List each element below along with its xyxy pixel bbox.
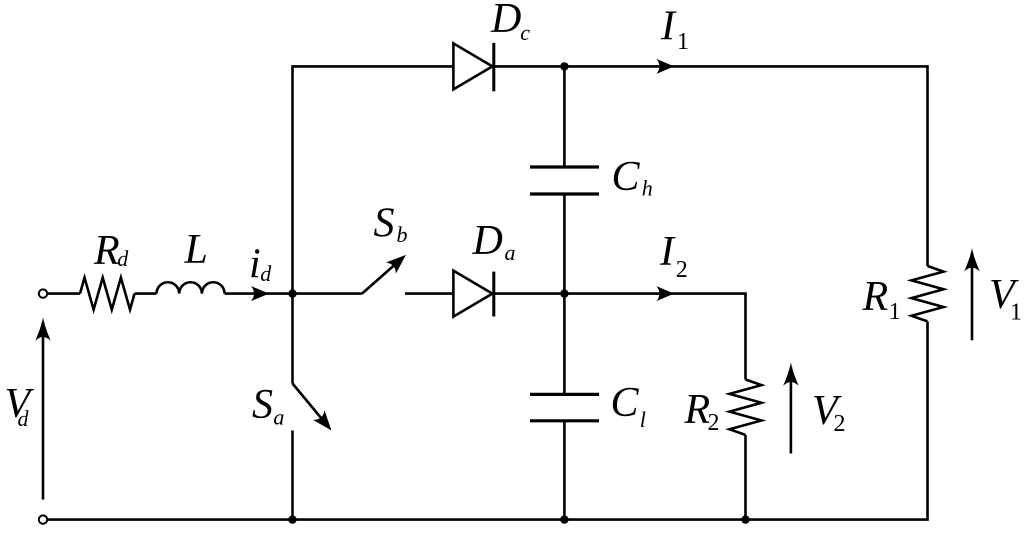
switch Sa: [293, 384, 338, 436]
voltage arrow Vd: [35, 317, 50, 499]
svg-text:d: d: [260, 261, 272, 286]
node middle capacitor junction: [560, 289, 568, 297]
wire capacitor branch top: [563, 66, 566, 167]
wire capacitor branch lower top: [563, 294, 566, 395]
wire input to Rd: [47, 292, 80, 295]
resistor R2: [730, 380, 762, 435]
resistor R1: [912, 266, 944, 321]
capacitor Cl: [530, 394, 599, 420]
svg-text:I: I: [659, 229, 676, 275]
wire middle rail right: [494, 294, 746, 380]
wire top rail left and left vertical riser: [293, 66, 454, 383]
wire Sa lower contact: [291, 431, 294, 520]
switch Sb: [362, 249, 411, 293]
terminal top-left input: [39, 289, 47, 297]
diode Dc: [453, 43, 493, 91]
wire Cl to bottom rail: [563, 421, 566, 520]
svg-text:1: 1: [889, 299, 901, 325]
resistor Rd: [80, 278, 135, 310]
svg-text:2: 2: [676, 257, 688, 283]
svg-text:I: I: [660, 3, 677, 49]
svg-text:c: c: [520, 20, 530, 45]
node input junction: [288, 289, 296, 297]
svg-text:S: S: [374, 201, 395, 247]
terminal bottom-left input: [39, 515, 47, 523]
svg-text:1: 1: [677, 29, 689, 55]
wire R2 to bottom rail: [744, 435, 747, 520]
svg-text:C: C: [611, 380, 640, 426]
node bottom Sa junction: [288, 515, 296, 523]
wire Rd to L: [135, 292, 157, 295]
node bottom R2 junction: [741, 515, 749, 523]
svg-text:D: D: [490, 0, 521, 42]
svg-text:R: R: [862, 274, 889, 320]
wire switch to Da: [405, 292, 453, 295]
svg-text:d: d: [117, 246, 129, 271]
svg-text:2: 2: [834, 411, 846, 437]
svg-text:S: S: [252, 382, 273, 428]
voltage arrow V2: [783, 362, 798, 453]
svg-text:D: D: [472, 218, 503, 264]
node top capacitor junction: [560, 62, 568, 70]
svg-text:a: a: [273, 405, 284, 430]
wire L to node: [225, 292, 293, 295]
svg-text:2: 2: [708, 410, 720, 436]
capacitor Ch: [530, 167, 599, 194]
svg-text:R: R: [93, 228, 120, 274]
current arrow id: [251, 286, 269, 301]
wire middle rail to switch: [293, 292, 363, 295]
svg-text:R: R: [684, 387, 711, 433]
svg-text:h: h: [642, 176, 653, 201]
inductor L: [157, 282, 225, 293]
svg-text:b: b: [397, 222, 408, 247]
node bottom capacitor junction: [560, 515, 568, 523]
svg-text:i: i: [249, 242, 261, 288]
svg-text:L: L: [184, 227, 208, 273]
voltage arrow V1: [964, 248, 979, 340]
wire Ch to middle node: [563, 194, 566, 294]
current arrow I2: [657, 286, 675, 301]
current arrow I1: [657, 59, 675, 74]
diode Da: [453, 271, 493, 317]
svg-text:1: 1: [1010, 300, 1022, 326]
svg-text:l: l: [640, 407, 646, 432]
svg-text:a: a: [505, 240, 516, 265]
wire top rail right: [494, 66, 928, 266]
svg-text:d: d: [18, 406, 30, 431]
svg-text:C: C: [612, 154, 641, 200]
wire bottom rail: [47, 321, 927, 519]
